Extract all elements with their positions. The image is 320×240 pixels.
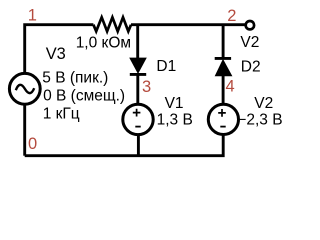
V2 plus sign <box>218 109 226 117</box>
svg-text:D2: D2 <box>241 59 261 76</box>
V2 minus sign <box>220 126 225 128</box>
svg-text:V3: V3 <box>46 45 66 63</box>
AC source sine wave <box>16 85 34 93</box>
diode D1 (pointing down) triangle <box>130 58 146 72</box>
wire: D2 to V2 source <box>222 75 225 105</box>
svg-text:V2: V2 <box>254 95 273 112</box>
svg-text:0: 0 <box>28 135 37 153</box>
svg-text:1,3 В: 1,3 В <box>157 112 193 129</box>
wire: D2 branch from top wire down <box>222 25 225 58</box>
V1 minus sign <box>135 126 140 128</box>
diode D2 cathode bar (top) <box>215 57 231 60</box>
svg-text:−2,3 В: −2,3 В <box>237 112 282 129</box>
svg-text:V1: V1 <box>165 95 184 112</box>
svg-text:4: 4 <box>226 78 235 96</box>
wire: top horizontal from resistor to output terminal <box>131 23 245 26</box>
wire: D1 branch from top wire down to diode <box>136 25 139 60</box>
wire: V2 bottom to bottom-right corner and ground rail <box>25 134 224 156</box>
svg-text:1: 1 <box>28 7 37 25</box>
svg-text:V2: V2 <box>240 34 259 51</box>
svg-text:3: 3 <box>142 78 151 96</box>
wire: V1 bottom to ground rail <box>137 134 140 156</box>
AC source V3 circle <box>9 73 40 104</box>
wire: D1 to V1 source <box>136 74 139 105</box>
svg-text:1 кГц: 1 кГц <box>43 105 80 122</box>
diode D1 cathode bar <box>130 73 146 76</box>
wire: left vertical + top horizontal to resistor <box>25 25 94 74</box>
V1 plus sign <box>133 109 141 117</box>
voltage source V1 circle <box>123 104 153 134</box>
svg-text:1,0 кОм: 1,0 кОм <box>76 35 131 52</box>
svg-text:D1: D1 <box>156 58 176 75</box>
resistor R1 1,0 кОм zigzag <box>93 17 131 31</box>
wire: ground rail up to V3 <box>23 105 26 156</box>
svg-text:0 В (смещ.): 0 В (смещ.) <box>43 87 125 104</box>
diode D2 (pointing up) triangle <box>216 60 232 75</box>
svg-text:2: 2 <box>227 7 236 25</box>
voltage source V2 circle <box>208 104 238 134</box>
svg-text:5 В (пик.): 5 В (пик.) <box>42 69 108 86</box>
output terminal node 2 (open circle) <box>246 21 254 29</box>
